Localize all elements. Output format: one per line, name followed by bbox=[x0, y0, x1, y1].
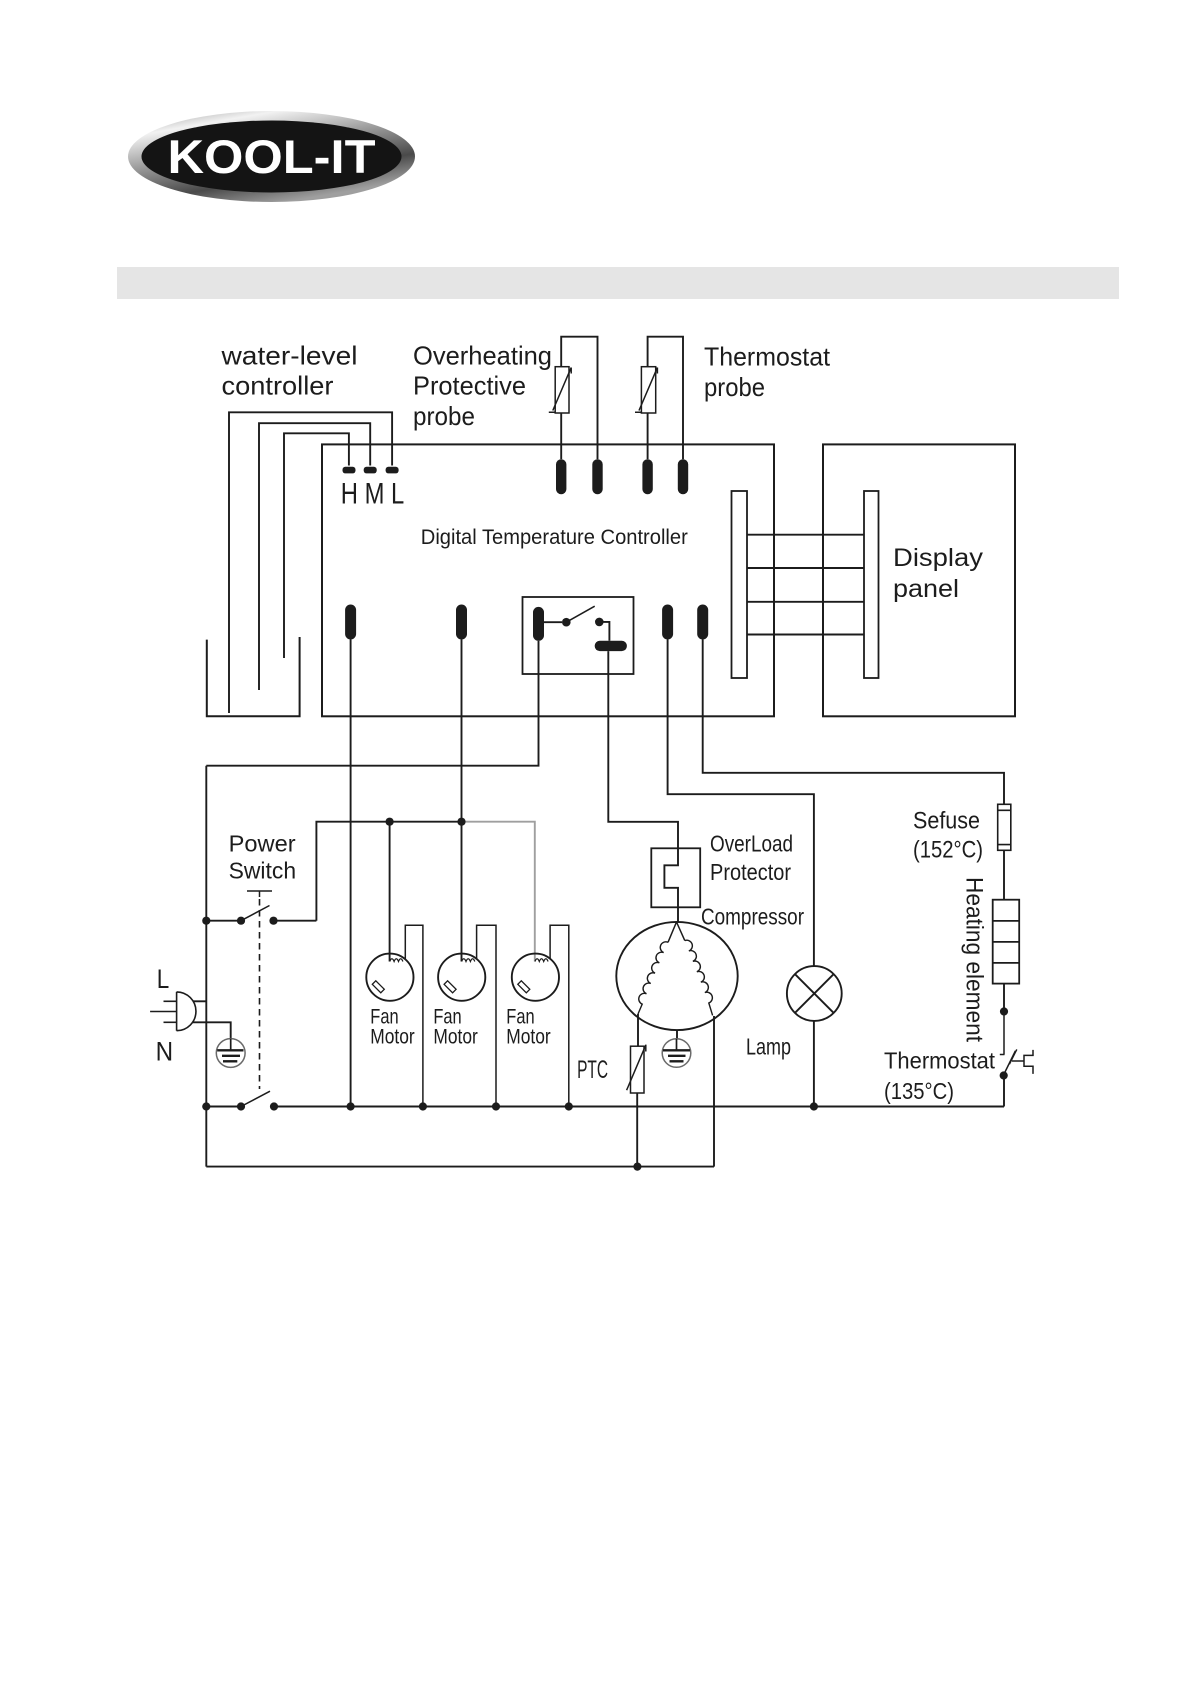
wire pin7 to L rail bbox=[206, 641, 538, 766]
fan motor 1 brush slash bbox=[372, 981, 384, 993]
relay coil capsule bbox=[595, 641, 627, 651]
display panel box bbox=[823, 444, 1015, 716]
lamp circle bbox=[787, 966, 842, 1021]
compressor right winding bbox=[685, 940, 713, 1015]
relay pivot dot bbox=[562, 618, 571, 627]
dot lamp rail bbox=[810, 1102, 818, 1110]
overheating probe thermistor body bbox=[555, 367, 569, 413]
wire pin5 to N rail bbox=[350, 640, 352, 1107]
svg-text:controller: controller bbox=[222, 371, 334, 401]
heating element body bbox=[993, 900, 1020, 984]
thermostat 135 bracket bbox=[1024, 1050, 1033, 1074]
svg-text:Display: Display bbox=[893, 544, 984, 572]
ribbon wire 1 bbox=[747, 534, 864, 536]
svg-text:Overheating: Overheating bbox=[413, 341, 552, 371]
terminal L bbox=[386, 467, 399, 474]
heater to thermostat wire bbox=[1003, 984, 1005, 1012]
dot fan2 rail bbox=[492, 1102, 500, 1110]
svg-text:Digital Temperature Controller: Digital Temperature Controller bbox=[421, 525, 688, 549]
fan motor 3 brush slash bbox=[518, 981, 530, 993]
switched live rail bbox=[316, 822, 461, 921]
pin 1 bbox=[556, 459, 566, 494]
lamp wire to rail bbox=[813, 1021, 815, 1107]
svg-text:Compressor: Compressor bbox=[701, 904, 804, 930]
svg-text:Power: Power bbox=[229, 831, 296, 857]
svg-text:Sefuse: Sefuse bbox=[913, 808, 980, 835]
relay pin 7 bbox=[533, 607, 544, 641]
svg-text:Motor: Motor bbox=[433, 1026, 477, 1049]
overheating probe loop bbox=[561, 337, 597, 460]
relay common wire bbox=[544, 621, 562, 623]
fan motor 2 circle bbox=[438, 954, 485, 1001]
pin 6 bbox=[456, 605, 467, 640]
thermostat probe loop bbox=[648, 337, 683, 460]
fan motor 3 return wire bbox=[550, 925, 569, 1106]
dot fan3 rail bbox=[565, 1102, 573, 1110]
dot rail n1 bbox=[202, 1102, 210, 1110]
overload protector box bbox=[651, 848, 700, 907]
fan motor 2 brush slash bbox=[444, 981, 456, 993]
overheating probe wire to pin bbox=[560, 413, 562, 459]
pin 2 bbox=[592, 459, 602, 494]
PTC diagonal bbox=[627, 1045, 646, 1091]
plug prong middle bbox=[150, 1011, 177, 1013]
power switch upper pole bbox=[206, 920, 316, 922]
svg-text:probe: probe bbox=[704, 372, 765, 402]
PTC wire to rail2 bbox=[636, 1093, 638, 1167]
gray title bar bbox=[117, 267, 1119, 299]
main N rail bbox=[206, 1076, 1004, 1107]
svg-text:KOOL-IT: KOOL-IT bbox=[168, 130, 376, 183]
dot switch lower b bbox=[270, 1102, 278, 1110]
fan motor 3 coil squiggle bbox=[535, 959, 548, 962]
wire pin8 to lamp bbox=[668, 640, 814, 967]
fan1 feed bbox=[389, 822, 391, 962]
pin 4 bbox=[678, 459, 688, 494]
svg-text:OverLoad: OverLoad bbox=[710, 831, 793, 857]
connector bar right bbox=[864, 491, 879, 678]
controller box U1 bbox=[322, 444, 774, 716]
svg-text:L: L bbox=[157, 964, 170, 994]
svg-text:Thermostat: Thermostat bbox=[704, 342, 831, 372]
dot switch upper a bbox=[237, 917, 245, 925]
sefuse to heater wire bbox=[1003, 850, 1005, 899]
svg-text:N: N bbox=[156, 1037, 174, 1067]
overheating probe thermistor diagonal bbox=[549, 368, 571, 413]
relay contact wire bbox=[599, 622, 609, 641]
thermostat 135 slash bbox=[1009, 1049, 1016, 1064]
fan motor 2 coil squiggle bbox=[462, 959, 475, 962]
sefuse body bbox=[998, 804, 1011, 850]
plug live wire bbox=[193, 1000, 206, 1002]
compressor ground circle bbox=[662, 1039, 691, 1068]
svg-text:probe: probe bbox=[413, 401, 475, 431]
logo KOOL-IT bbox=[128, 111, 415, 202]
dot thermostat top bbox=[1000, 1007, 1008, 1015]
compressor apex wires bbox=[668, 922, 685, 942]
wire relay to overload bbox=[608, 651, 678, 922]
PTC body bbox=[631, 1046, 645, 1093]
pin 3 bbox=[642, 459, 652, 494]
plug ground circle bbox=[216, 1039, 245, 1068]
svg-text:Heating element: Heating element bbox=[961, 877, 988, 1042]
power switch lower blade bbox=[241, 1091, 270, 1106]
fan motor 3 circle bbox=[512, 954, 559, 1001]
terminal H bbox=[343, 467, 356, 474]
svg-text:(135°C): (135°C) bbox=[884, 1078, 954, 1104]
thermostat probe wire to pin bbox=[647, 413, 649, 459]
compressor ground stem bbox=[676, 1030, 678, 1039]
svg-text:panel: panel bbox=[893, 575, 959, 603]
terminal M bbox=[364, 467, 377, 474]
svg-text:PTC: PTC bbox=[577, 1056, 608, 1084]
fan3 feed gray wire bbox=[462, 822, 535, 962]
junction dot fan2 feed bbox=[457, 818, 465, 826]
left rail L bbox=[205, 766, 207, 1167]
svg-text:(152°C): (152°C) bbox=[913, 837, 983, 864]
svg-text:Motor: Motor bbox=[370, 1026, 414, 1049]
svg-text:water-level: water-level bbox=[220, 341, 357, 371]
dot switch upper b bbox=[269, 917, 277, 925]
water tank bbox=[207, 637, 300, 716]
power switch upper blade bbox=[241, 906, 270, 921]
wire pin9 to sefuse bbox=[703, 640, 1004, 805]
ribbon wire 2 bbox=[747, 567, 864, 569]
water level wire L bbox=[229, 412, 392, 713]
power switch tick bbox=[247, 891, 272, 897]
compressor circle bbox=[616, 922, 737, 1030]
pin 5 bbox=[345, 605, 356, 640]
relay blade bbox=[566, 606, 594, 622]
svg-text:Lamp: Lamp bbox=[746, 1034, 791, 1060]
power switch dashed link bbox=[259, 899, 261, 1089]
svg-text:Switch: Switch bbox=[229, 858, 297, 884]
svg-text:Motor: Motor bbox=[506, 1026, 550, 1049]
thermostat probe thermistor diagonal bbox=[635, 368, 657, 413]
svg-text:Protective: Protective bbox=[413, 371, 526, 401]
fan motor 1 return wire bbox=[405, 925, 423, 1106]
sefuse end lines bbox=[998, 810, 1011, 844]
dot fan1 rail bbox=[419, 1102, 427, 1110]
relay contact dot bbox=[595, 618, 604, 627]
thermostat probe thermistor body bbox=[641, 367, 655, 413]
compressor left lead to PTC bbox=[637, 1014, 639, 1046]
fan motor 2 return wire bbox=[477, 925, 496, 1106]
lamp X bbox=[795, 974, 834, 1013]
pin 8 bbox=[662, 605, 673, 640]
dot thermostat bottom bbox=[1000, 1071, 1008, 1079]
thermostat 135 stem bbox=[1000, 1012, 1005, 1055]
connector bar left bbox=[732, 491, 748, 678]
thermostat 135 blade bbox=[1003, 1051, 1015, 1076]
compressor left winding bbox=[638, 942, 668, 1014]
water level wire M bbox=[259, 423, 370, 690]
junction dot fan1 feed bbox=[386, 818, 394, 826]
thermostat 135 link bbox=[1012, 1060, 1024, 1062]
heating element dividers bbox=[993, 921, 1020, 963]
dot rail left bbox=[202, 917, 210, 925]
plug prong top bbox=[164, 1000, 177, 1002]
plug body bbox=[177, 992, 196, 1031]
rail 2 bbox=[206, 1166, 714, 1168]
dot pin5 rail bbox=[347, 1102, 355, 1110]
dot PTC rail2 bbox=[633, 1163, 641, 1171]
pin 9 bbox=[697, 605, 708, 640]
svg-text:Protector: Protector bbox=[710, 859, 791, 885]
ribbon wire 4 bbox=[747, 634, 864, 636]
wire pin6 to fan2 bbox=[461, 640, 463, 962]
dot switch lower a bbox=[237, 1102, 245, 1110]
svg-text:Thermostat: Thermostat bbox=[884, 1048, 996, 1074]
fan motor 1 circle bbox=[366, 954, 413, 1001]
fan motor 1 coil squiggle bbox=[390, 959, 403, 962]
svg-text:H M L: H M L bbox=[341, 478, 405, 511]
relay box bbox=[523, 597, 634, 674]
plug earth wire bbox=[193, 1022, 231, 1038]
ribbon wire 3 bbox=[747, 601, 864, 603]
water level wire H bbox=[284, 433, 349, 658]
compressor right lead to rail2 bbox=[713, 1016, 715, 1167]
plug prong bottom bbox=[164, 1021, 177, 1023]
